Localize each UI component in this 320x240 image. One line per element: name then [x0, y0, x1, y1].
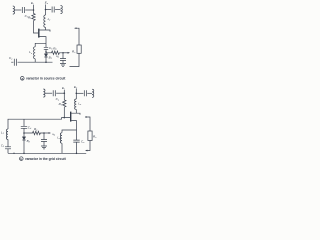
wire gate rail	[34, 21, 39, 33]
caption (a)	[21, 77, 25, 81]
bottom wire (a)	[11, 61, 52, 63]
wire output branch	[46, 9, 52, 11]
svg-text:L1: L1	[1, 131, 4, 136]
inductor Lg grid branch (b)	[6, 129, 8, 139]
wire coil to cap (b-left)	[7, 139, 9, 146]
svg-text:R2: R2	[53, 47, 57, 52]
svg-text:uΩ: uΩ	[56, 55, 59, 59]
capacitor C coupling (a)	[22, 7, 24, 13]
bottom wire (b)	[8, 152, 86, 154]
varactor D2 (b)	[22, 137, 25, 140]
node bottom junction (b)	[76, 153, 78, 155]
svg-text:Cб: Cб	[28, 126, 32, 131]
wire bypass	[62, 53, 64, 59]
wire output stub top	[75, 28, 80, 45]
ground (a)	[60, 64, 66, 67]
wire cap to bottom corner (b)	[7, 149, 9, 154]
node supply junction (b)	[76, 93, 78, 95]
rail Ep top (b)	[75, 89, 77, 99]
capacitor Cb grid (b)	[21, 126, 27, 128]
node bottom left junction (b)	[13, 153, 14, 154]
coupling coil L1 input (a)	[13, 6, 15, 14]
wire to modulation input arrow	[63, 52, 68, 54]
inductor Li source (b)	[60, 133, 62, 143]
svg-text:Cи: Cи	[81, 140, 85, 145]
inductor Lk tank (b)	[75, 99, 77, 109]
transistor T2 channel bar	[70, 112, 72, 122]
wire rail to gate	[63, 107, 65, 118]
coupling coil L4 output (b)	[92, 89, 94, 97]
wire cap to varactor node	[45, 49, 47, 54]
svg-text:Lк: Lк	[48, 17, 52, 22]
capacitor C2 output (a)	[52, 7, 54, 13]
transistor T1 channel bar	[38, 29, 40, 38]
transistor T2 gate lead	[8, 118, 70, 129]
wire varactor to bottom	[45, 57, 47, 62]
coupling coil L2 output (a)	[61, 5, 63, 13]
svg-text:varactor in source circuit: varactor in source circuit	[26, 77, 66, 81]
resistor R4 bias (b)	[24, 131, 44, 135]
capacitor Cb blocking (a)	[44, 47, 48, 49]
wire varactor to bottom (b)	[23, 140, 25, 153]
svg-text:Rн: Rн	[72, 50, 76, 55]
wire coil to bottom	[34, 59, 36, 62]
capacitor C7 bypass (b)	[41, 140, 47, 142]
svg-text:uΩ: uΩ	[52, 133, 55, 137]
capacitor C3 bypass (a)	[60, 59, 66, 61]
node varactor top (b)	[23, 132, 25, 134]
node bias junction (b)	[64, 92, 66, 94]
resistor Rn load box (a)	[77, 45, 81, 53]
wire output branch (b)	[76, 92, 83, 94]
svg-text:Ec: Ec	[62, 86, 66, 91]
wire L-branch tee (b)	[62, 130, 77, 133]
wire L-branch tee	[35, 43, 46, 47]
svg-text:varactor in the grid circuit: varactor in the grid circuit	[25, 157, 67, 161]
resistor R2 bias (a)	[46, 51, 63, 55]
svg-text:R1: R1	[59, 102, 62, 107]
wire bypass (b)	[43, 133, 45, 139]
transistor T2 source lead	[71, 121, 76, 140]
svg-text:Ec: Ec	[31, 1, 35, 6]
svg-text:В1: В1	[49, 56, 52, 61]
svg-text:Cи: Cи	[9, 56, 13, 61]
svg-text:R2: R2	[34, 127, 38, 132]
wire	[43, 142, 45, 146]
resistor Rn load box (b)	[88, 131, 92, 141]
resistor R3 (b)	[63, 100, 66, 107]
capacitor C4 coupling (b)	[53, 90, 55, 96]
svg-text:R1: R1	[28, 16, 31, 21]
transistor T2 drain lead	[71, 113, 80, 115]
wire	[87, 92, 92, 94]
node varactor top	[45, 51, 47, 53]
wire	[62, 61, 64, 64]
arrow output stub (a)	[74, 27, 76, 29]
node gate-bias junction	[33, 9, 35, 11]
wire to modulation arrow (b)	[44, 132, 49, 134]
node bypass junction	[62, 52, 64, 54]
coupling coil L3 input (b)	[43, 89, 45, 97]
wire load bottom	[70, 53, 80, 66]
inductor Li source (a)	[34, 47, 36, 59]
wire	[25, 9, 33, 11]
svg-text:b: b	[20, 157, 22, 161]
arrow load bottom (b)	[85, 150, 87, 152]
varactor D1 (a)	[44, 54, 47, 57]
arrow modulation input (b)	[49, 132, 51, 134]
capacitor C5 output (b)	[84, 90, 86, 96]
caption (b)	[20, 157, 24, 161]
wire load bottom (b)	[87, 141, 91, 151]
wire drain tick	[45, 27, 47, 30]
svg-text:C2: C2	[1, 143, 5, 148]
wire	[14, 9, 21, 11]
arrow output stub (b)	[85, 116, 87, 118]
resistor R1	[32, 14, 35, 21]
arrow modulation input	[68, 52, 70, 54]
wire cap to varactor node (b)	[23, 128, 25, 137]
wire	[55, 9, 60, 11]
rail Ep top	[45, 5, 47, 16]
rail Ec top (b)	[63, 90, 65, 100]
svg-text:Eп: Eп	[45, 1, 49, 6]
svg-text:В2: В2	[27, 139, 31, 144]
capacitor Ci source (b)	[73, 140, 79, 142]
transistor T1 source lead	[39, 37, 46, 47]
ground (b)	[41, 146, 47, 149]
inductor Lk tank (a)	[44, 15, 46, 27]
svg-text:Lи: Lи	[29, 50, 33, 55]
wire cap to bottom (b)	[76, 142, 78, 153]
node gate junction (b)	[64, 117, 66, 119]
svg-text:Rн: Rн	[93, 135, 97, 140]
node bypass junction (b)	[43, 132, 45, 134]
wire output stub top (b)	[85, 117, 90, 131]
capacitor Ci series bottom (a)	[14, 59, 16, 66]
wire	[45, 92, 52, 94]
node drain-supply junction	[45, 9, 47, 11]
wire	[56, 92, 64, 94]
stub grid-cap branch (b)	[23, 119, 25, 126]
rail Ec top	[33, 5, 35, 14]
wire drain tick (b)	[75, 109, 77, 113]
node bottom varactor junction (b)	[23, 153, 25, 155]
node bottom junction	[45, 61, 47, 63]
transistor T1 drain lead	[39, 30, 50, 32]
svg-text:Lк: Lк	[78, 102, 82, 107]
wire coil to bottom (b)	[61, 143, 63, 153]
capacitor C6 series left (b)	[5, 147, 11, 149]
